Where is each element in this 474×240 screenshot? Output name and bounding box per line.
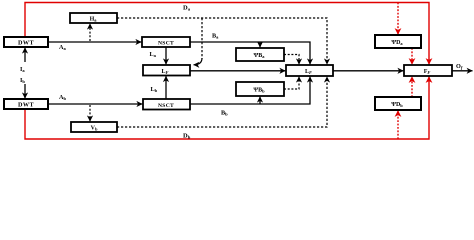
svg-text:Vb: Vb [91,126,98,132]
dashed stem into Ha box [89,24,91,41]
svg-text:ΨDa: ΨDa [391,40,403,46]
red dashed: bottom line into PsiDb [397,111,399,139]
wire LF-left to LF-mid [190,70,285,72]
wire LF-mid to F box [333,70,403,72]
box Ha [70,13,117,23]
stem La : NSCT-a down into LF-left [165,47,167,64]
box DWT-a [4,37,48,47]
dashed branch from Ha line hooking into LF-left box [201,18,203,59]
svg-text:ΨDb: ΨDb [391,102,403,108]
box Vb [71,122,117,132]
wire Ab : DWT-b to NSCT-b [48,103,142,105]
red dashed: top line into PsiDa [397,3,399,35]
box DWT-b [4,99,48,109]
dashed Ha line to x=327 then down into LF-mid top [117,18,327,64]
box LF-mid [286,65,333,76]
red dashed: PsiDb into F box bottom [411,77,413,97]
svg-text:Ha: Ha [90,17,98,23]
red dashed: PsiDa into F box top [411,48,413,64]
wire Ba : NSCT-a right, down into LF-mid top [190,42,310,64]
svg-text:FF: FF [424,69,431,75]
box PsiBa [236,48,284,61]
svg-text:NSCT: NSCT [158,40,174,46]
red detail path Db : DWT-b bottom, along bottom edge, up into F box [25,77,429,139]
svg-text:LF: LF [162,69,169,75]
box PsiDa [375,35,421,48]
dashed Vb line to x=327 then up into LF-mid bottom [117,77,327,127]
wire Bb : NSCT-b right, up into LF-mid bottom [190,77,310,104]
box F [404,65,452,76]
box NSCT-b [143,99,190,110]
dashed PsiBa out, into LF-mid top [284,55,299,65]
wire Aa : DWT-a to NSCT-a [48,41,141,43]
dashed PsiBb out, into LF-mid bottom [284,77,299,89]
box NSCT-a [142,37,190,47]
svg-text:ΨBb: ΨBb [253,88,265,94]
svg-text:DWT: DWT [18,102,34,109]
output wire Of [452,70,473,72]
input arrow Ib [24,84,26,98]
svg-text:NSCT: NSCT [158,103,174,109]
svg-text:ΨBa: ΨBa [254,53,266,59]
box PsiDb [375,97,421,110]
dashed stem into Vb box [89,105,91,121]
branch Ba down into PsiBa [259,42,261,47]
svg-text:LF: LF [305,69,312,75]
box LF-left [143,65,190,76]
branch Bb up into PsiBb [259,97,261,104]
box PsiBb [236,82,284,96]
red detail path Da : DWT-a top, along top edge, down into F box [25,3,429,65]
svg-text:DWT: DWT [18,40,34,47]
input arrow Ia [24,48,26,62]
stem Lb : NSCT-b up into LF-left [165,76,167,99]
